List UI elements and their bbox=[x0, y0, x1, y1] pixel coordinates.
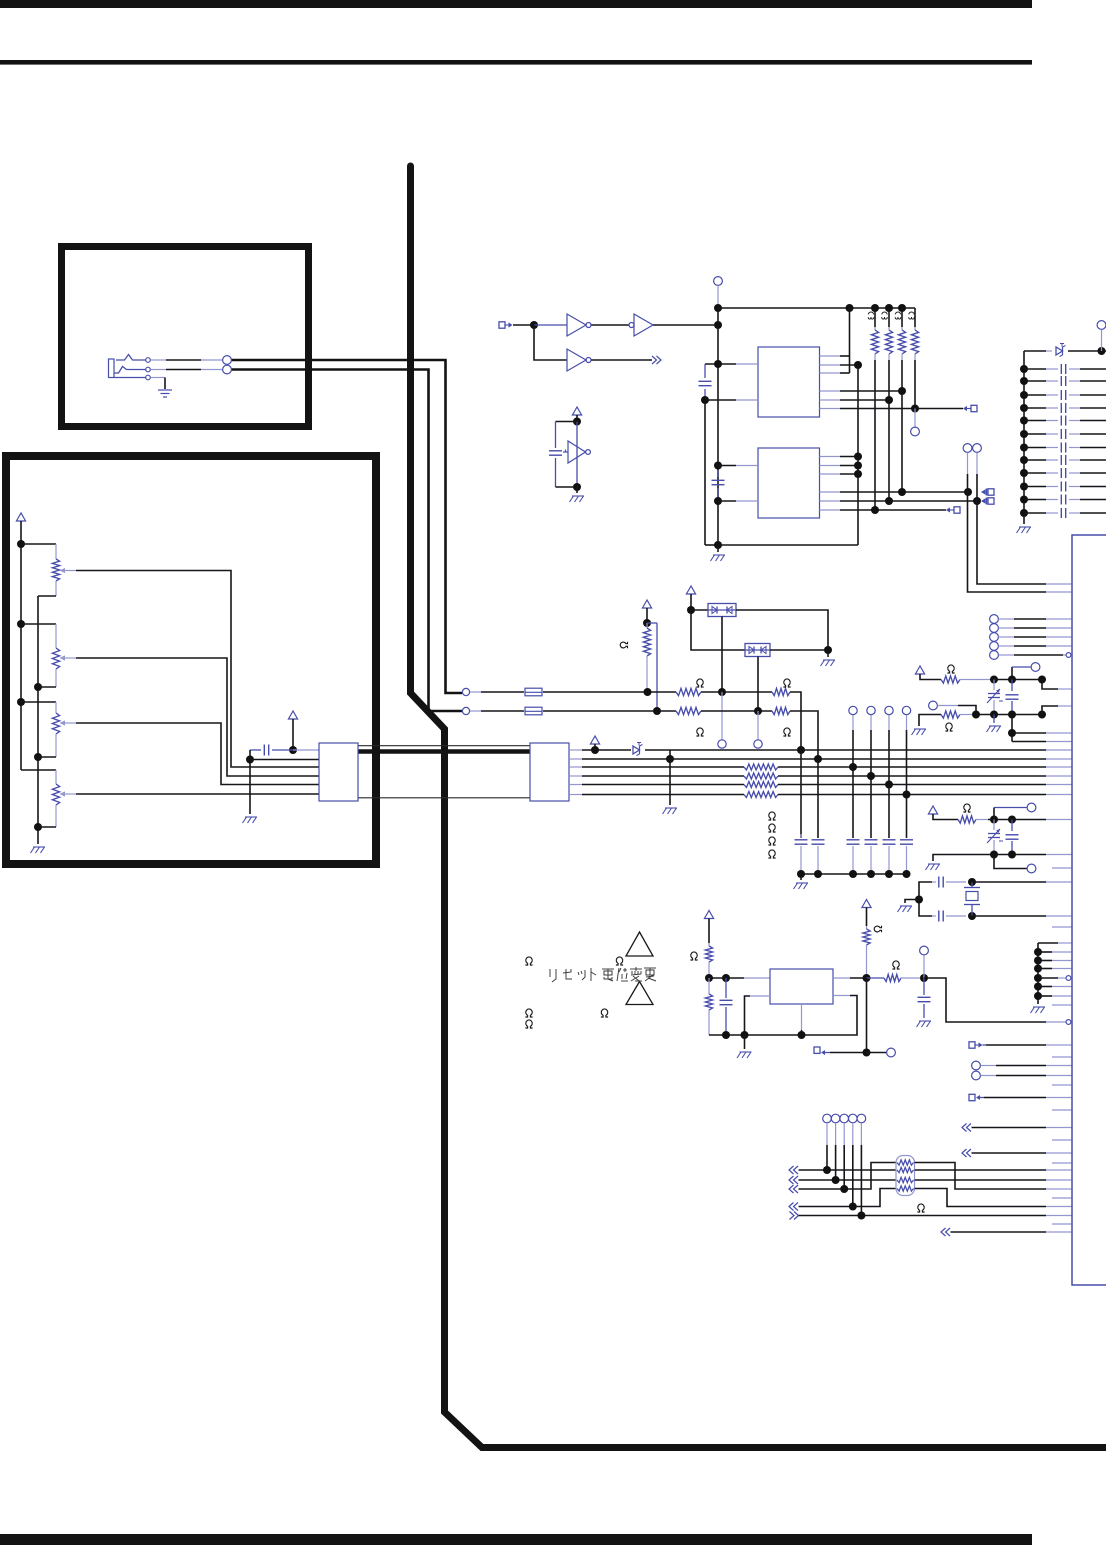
wire col4 bbox=[870, 715, 872, 838]
node bank 4 bbox=[1020, 404, 1028, 412]
wire row1045 bbox=[986, 1044, 1072, 1046]
wire wiper3 bbox=[76, 723, 319, 785]
wire U3 out3 bbox=[820, 372, 850, 374]
wire sig2 a bbox=[470, 710, 524, 712]
resistor R21 bbox=[705, 978, 712, 1035]
wire R5 col bbox=[901, 360, 903, 492]
node connector pin1 bbox=[289, 746, 297, 754]
capacitor C14 bbox=[932, 877, 966, 888]
wire U3 pin in1 bbox=[705, 363, 758, 365]
jack J1 sleeve body bbox=[109, 359, 115, 378]
pin circle B bbox=[973, 444, 982, 453]
node xtal top bbox=[968, 878, 976, 886]
node R7 top bbox=[643, 619, 651, 627]
ground diodes bbox=[821, 650, 836, 666]
wire t2 link bbox=[938, 706, 977, 715]
label ohm e bbox=[601, 1009, 608, 1017]
node connector pin2 bbox=[246, 756, 254, 764]
wire rp out3 bbox=[915, 1179, 1073, 1181]
chevron in 1206 bbox=[789, 1203, 798, 1211]
capacitor C10 bbox=[250, 745, 293, 756]
pin circle t3 bbox=[1027, 803, 1036, 812]
node t2e bbox=[1008, 729, 1016, 737]
resistor R9 bbox=[676, 688, 701, 695]
wire sig2 to col bbox=[790, 711, 818, 759]
resistor R13 bbox=[744, 764, 778, 770]
resistor R6 bbox=[911, 308, 918, 360]
wire to pot2 bbox=[21, 624, 56, 648]
terminal circle col6 bbox=[902, 706, 910, 714]
pin stub 1057 bbox=[1052, 1056, 1072, 1058]
jack harness wire lower bbox=[231, 370, 462, 712]
pin circle t4 bbox=[1027, 864, 1036, 873]
label ohm R10 bbox=[696, 728, 703, 736]
chevron in 1189 bbox=[789, 1185, 798, 1193]
wire row714 bbox=[960, 714, 1042, 716]
capacitor CB4 bbox=[1024, 403, 1106, 413]
pin stub 927 bbox=[1052, 926, 1072, 928]
wire pot2 bottom bbox=[38, 686, 56, 688]
wire wiper2 bbox=[76, 658, 319, 776]
ground t2 mid bbox=[987, 715, 1002, 733]
wire tp3 to conn bbox=[999, 636, 1073, 638]
node r3 510 bbox=[871, 506, 879, 514]
wire D1 tap bbox=[721, 617, 723, 693]
ground connector bbox=[243, 817, 258, 823]
terminal circle sig1 bbox=[462, 688, 469, 695]
ground zener bbox=[663, 808, 678, 814]
wire tp5 to conn bbox=[999, 653, 1073, 658]
wire row767 a bbox=[569, 766, 744, 768]
crystal X1 bbox=[964, 882, 980, 916]
pin circle D1 tap bbox=[718, 692, 726, 748]
wire reset sense bbox=[866, 978, 868, 1053]
resistor R5 bbox=[898, 308, 905, 360]
node rail R2 bbox=[846, 304, 854, 312]
wire sig1 c bbox=[701, 691, 772, 693]
control panel enclosure box bbox=[6, 456, 376, 864]
wire det vertical bbox=[576, 422, 578, 488]
node t1b bbox=[1008, 676, 1016, 684]
node reset b bbox=[722, 974, 730, 982]
node grp6 3 bbox=[1034, 965, 1042, 973]
port reset in bbox=[814, 1047, 830, 1055]
bus right vertical bbox=[718, 365, 858, 545]
pin stub 1110 bbox=[1052, 1109, 1072, 1111]
node pot1 top bbox=[17, 540, 25, 548]
terminal circle col5 bbox=[885, 706, 893, 714]
caution triangle 2 bbox=[626, 982, 653, 1005]
node u4out1 bbox=[854, 453, 862, 461]
node r4 501 bbox=[885, 497, 893, 505]
node u4out2 bbox=[854, 462, 862, 470]
resistor R22 bbox=[863, 926, 870, 978]
node cb3 bbox=[849, 870, 857, 878]
wire to pot3 bbox=[21, 702, 56, 713]
output chevron U2C bbox=[652, 356, 661, 364]
top title bar bbox=[0, 0, 1032, 8]
node grp6 6 bbox=[1034, 992, 1042, 1000]
ground C17 bbox=[917, 1021, 932, 1027]
capacitor CB3 bbox=[1024, 390, 1106, 400]
wire row1189 bbox=[799, 1163, 897, 1190]
main thick harness wire bbox=[411, 166, 1106, 1448]
chevron in 1232 bbox=[941, 1228, 950, 1236]
wire U3 out1 bbox=[820, 355, 850, 357]
power triangle diodes bbox=[686, 586, 695, 610]
node t2d bbox=[1038, 711, 1046, 719]
node grp6 5 bbox=[1034, 983, 1042, 991]
wire row1097 bbox=[984, 1097, 1072, 1099]
resistor R14 bbox=[744, 773, 778, 779]
wire D2 tap bbox=[757, 657, 759, 712]
caution triangle 1 bbox=[626, 932, 653, 956]
wire t3 circle link bbox=[994, 808, 1027, 820]
pin circle top bbox=[714, 277, 723, 286]
wire row767 b bbox=[778, 766, 1072, 768]
label ohm a bbox=[525, 957, 532, 965]
wire port to node bbox=[513, 324, 534, 326]
supply bus wire bbox=[21, 544, 56, 770]
wire sig1 to col bbox=[790, 692, 801, 750]
capacitor C8 bbox=[865, 840, 878, 874]
wire rail top row bbox=[1024, 350, 1052, 352]
node bank 1 bbox=[1020, 365, 1028, 373]
label ohm b bbox=[616, 957, 623, 965]
diode pair D2 bbox=[745, 644, 770, 657]
label ohm R13 bbox=[768, 812, 775, 820]
capacitor CB2 bbox=[1024, 376, 1106, 386]
wire g5 c5 bbox=[860, 1123, 862, 1216]
node bank 3 bbox=[1020, 391, 1028, 399]
node col4 bbox=[867, 772, 875, 780]
node r5 492 bbox=[898, 488, 906, 496]
node t2a bbox=[972, 711, 980, 719]
wire col3 bbox=[852, 715, 854, 838]
node t3d bbox=[1008, 851, 1016, 859]
wire c1 ground col bbox=[705, 400, 718, 545]
node grp6 4 bbox=[1034, 974, 1042, 982]
node u3pin1 bbox=[714, 360, 722, 368]
wire g5 c3 bbox=[843, 1123, 845, 1189]
wire U2A to U2B bbox=[592, 324, 630, 326]
capacitor CB1 bbox=[1024, 364, 1106, 374]
resistor R12 bbox=[772, 707, 790, 714]
capacitor C7 bbox=[847, 840, 860, 874]
label ohm R7 bbox=[620, 642, 627, 649]
node t1c bbox=[1038, 676, 1046, 684]
port data1 bbox=[981, 489, 994, 496]
wire row854 bbox=[933, 855, 1072, 862]
bus vertical main bbox=[717, 308, 719, 545]
chevron in 1180 bbox=[789, 1176, 798, 1184]
node gnd rail joint bbox=[714, 541, 722, 549]
wire U6 pin2 bbox=[745, 996, 771, 1035]
wire col2 lower bbox=[817, 759, 819, 838]
capacitor C13 bbox=[1006, 820, 1019, 855]
capacitor CB8 bbox=[1024, 455, 1106, 465]
wire xtal row882 bbox=[972, 881, 1072, 883]
node bank 8 bbox=[1020, 456, 1028, 464]
wire R6 col bbox=[914, 360, 916, 409]
label ohm R16 bbox=[768, 850, 775, 858]
jack J1 ring contact bbox=[114, 367, 146, 374]
cap bank left rail bbox=[1023, 351, 1025, 513]
wire R2 col bbox=[849, 308, 851, 373]
wire U4 pin in1 bbox=[718, 465, 758, 467]
node grp6 1 bbox=[1034, 948, 1042, 956]
wire t2 down1 bbox=[1011, 715, 1013, 742]
pin circle A bbox=[963, 444, 972, 453]
ground t3 bbox=[926, 864, 941, 870]
port data3 bbox=[946, 507, 960, 513]
wire U6 right pin2 bbox=[709, 996, 857, 1036]
node reset rail1 bbox=[722, 1031, 730, 1039]
terminal circle col4 bbox=[867, 706, 875, 714]
wire t2 step bbox=[1042, 706, 1072, 715]
resistor R15 bbox=[744, 782, 778, 788]
pin circle 1066 bbox=[972, 1061, 981, 1070]
label ohm R20 bbox=[690, 952, 697, 960]
pin circle t1 bbox=[1031, 663, 1040, 672]
label C3 a bbox=[868, 312, 874, 319]
node r5 391 bbox=[898, 387, 906, 395]
wire t1 circle link bbox=[1012, 667, 1031, 680]
power triangle row750 bbox=[590, 736, 599, 750]
node rail R5 bbox=[898, 304, 906, 312]
wire D1 out bbox=[736, 610, 828, 650]
capacitor C5 bbox=[795, 834, 808, 874]
node t3b bbox=[1008, 816, 1016, 824]
pin stub 868 bbox=[1052, 867, 1072, 869]
wire cap to ground bbox=[249, 750, 251, 814]
chevron in 1153 bbox=[962, 1149, 971, 1157]
wire col6 bbox=[906, 715, 908, 838]
wire row1180 bbox=[799, 1179, 897, 1181]
diode pair D1 bbox=[708, 604, 736, 617]
connector CN1 left box bbox=[319, 743, 358, 801]
label ohm R14 bbox=[768, 824, 775, 832]
wire branch lower inverter bbox=[534, 325, 567, 360]
label ohm R15 bbox=[768, 837, 775, 845]
wire tp2 to conn bbox=[999, 627, 1073, 629]
resistor R20 bbox=[705, 943, 712, 978]
pin stub 1224 bbox=[1052, 1223, 1072, 1225]
resistor R11 bbox=[676, 707, 701, 714]
label ohm R22 bbox=[874, 926, 881, 933]
wire row1170 bbox=[799, 1169, 897, 1171]
pin stub 1085 bbox=[1052, 1084, 1072, 1086]
wire col1 lower bbox=[800, 750, 802, 838]
pin circle D2 tap bbox=[754, 711, 762, 748]
pin circle top right bbox=[1097, 321, 1106, 351]
port out 1045 bbox=[969, 1042, 986, 1048]
wire D2 out bbox=[770, 649, 828, 651]
ground detector bbox=[570, 487, 585, 502]
label ohm R23 bbox=[892, 961, 899, 969]
wire sig2 c bbox=[701, 710, 772, 712]
inverter U2B bbox=[629, 314, 653, 336]
node circ2 501 bbox=[973, 497, 981, 505]
wire grp6 3 bbox=[1038, 968, 1072, 970]
node pot3 bottom bbox=[34, 753, 42, 761]
capacitor CB6 bbox=[1024, 429, 1106, 439]
wire grp6 2 bbox=[1038, 960, 1072, 962]
jack J1 tip pin bbox=[146, 358, 151, 363]
ground reset bbox=[737, 1035, 752, 1058]
node c1 bot bbox=[701, 396, 709, 404]
terminal circle col3 bbox=[849, 706, 857, 714]
power triangle detector bbox=[572, 407, 581, 422]
label C3 b bbox=[882, 312, 888, 319]
node circ1 492 bbox=[964, 488, 972, 496]
power triangle reset bbox=[704, 911, 713, 944]
wire U2B out bbox=[653, 324, 714, 326]
wire U4 out5 bbox=[820, 500, 978, 502]
chevron in 1170 bbox=[789, 1166, 798, 1174]
wire col5 bbox=[888, 715, 890, 838]
wire reset pin1 bbox=[709, 977, 770, 979]
wire tip to connector bbox=[151, 359, 223, 361]
wire U6 out bbox=[833, 977, 867, 979]
wire R8 branch bbox=[647, 623, 657, 711]
IC U4 lower bbox=[758, 448, 820, 518]
ground main bus bbox=[711, 545, 726, 561]
label ohm RP bbox=[917, 1204, 924, 1212]
wire row819 bbox=[976, 819, 1072, 821]
node t3a bbox=[990, 816, 998, 824]
detector U5 bbox=[563, 441, 590, 463]
pot return bus bbox=[37, 596, 39, 844]
wire pot4 bottom bbox=[38, 826, 56, 828]
wire to pot4 bbox=[55, 770, 57, 784]
wire row1128 bbox=[972, 1127, 1073, 1129]
node reset e bbox=[863, 1049, 871, 1057]
node reset rail3 bbox=[798, 1031, 806, 1039]
wire row759 bbox=[569, 758, 1072, 760]
wire U2C out bbox=[592, 359, 653, 361]
power triangle T2 bbox=[928, 806, 958, 820]
wire top row b bbox=[1068, 350, 1106, 352]
node u4pin1 bbox=[714, 462, 722, 470]
cap bank bottom rail bbox=[801, 873, 907, 875]
wire row1232 bbox=[951, 1231, 1073, 1233]
wire row750 b bbox=[645, 749, 1072, 751]
capacitor C16 bbox=[720, 978, 733, 1035]
input port IN1 bbox=[499, 322, 513, 328]
wire reset to conn bbox=[924, 978, 1071, 1024]
wire U3 pin in2 bbox=[705, 399, 758, 401]
label ohm R9 bbox=[696, 679, 703, 687]
wire U4 out1 bbox=[820, 456, 859, 458]
wire U4 out2 bbox=[820, 465, 859, 467]
node inverter input bbox=[530, 321, 538, 329]
wire U4 out3 bbox=[820, 473, 859, 475]
potentiometer VR4 bbox=[52, 784, 76, 827]
node b1215 bbox=[857, 1212, 865, 1220]
wire circleB down bbox=[976, 453, 978, 502]
wire grp6 1 bbox=[1038, 951, 1072, 953]
jack output terminal upper bbox=[223, 356, 232, 365]
wire grp6 4 bbox=[1038, 976, 1071, 981]
pin stub 1163 bbox=[1052, 1162, 1072, 1164]
pin circle reset2 bbox=[887, 1048, 896, 1057]
node rail R4 bbox=[885, 304, 893, 312]
node grp6 2 bbox=[1034, 957, 1042, 965]
wire grp6 top bbox=[1038, 943, 1072, 1001]
node sig1 d1 bbox=[718, 688, 726, 696]
node b1189 bbox=[840, 1185, 848, 1193]
wire R4 col bbox=[888, 360, 890, 501]
wire row1066 bbox=[981, 1065, 1073, 1067]
potentiometer VR1 bbox=[52, 559, 76, 596]
node row750 bbox=[591, 746, 599, 754]
node t2b bbox=[990, 711, 998, 719]
ground grp6 bbox=[1031, 1001, 1046, 1013]
wire U3 out2 bbox=[820, 364, 859, 366]
node bank 6 bbox=[1020, 430, 1028, 438]
power triangle left box bbox=[16, 513, 25, 544]
wire row714 gnd riser bbox=[919, 715, 941, 727]
node sig2 pullup bbox=[653, 707, 661, 715]
panel harness thick wire bbox=[358, 749, 530, 754]
wire g5 c1 bbox=[826, 1123, 828, 1170]
power triangle R7 bbox=[642, 600, 651, 623]
wire connector pin1 stub bbox=[293, 749, 319, 751]
zener D3 bbox=[633, 743, 643, 756]
capacitor CB5 bbox=[1024, 416, 1106, 426]
node cb1 bbox=[797, 870, 805, 878]
wire row776 a bbox=[569, 775, 744, 777]
wire to reset circle bbox=[867, 1052, 887, 1054]
node bank 10 bbox=[1020, 483, 1028, 491]
resistor R4 bbox=[885, 308, 892, 360]
node pot2 bottom bbox=[34, 683, 42, 691]
wire U3 out5 bbox=[820, 399, 890, 401]
node rail R3 bbox=[871, 304, 879, 312]
node sig2 d2 bbox=[754, 707, 762, 715]
wire port to reset node bbox=[830, 1052, 867, 1054]
label ohm R17 bbox=[947, 665, 954, 673]
power triangle T1 bbox=[915, 666, 941, 680]
capacitor C2 bbox=[712, 470, 725, 497]
node pot4 bottom bbox=[34, 823, 42, 831]
port mute in bbox=[963, 405, 977, 411]
wire row784 b bbox=[778, 784, 1072, 786]
wire U4 out6 bbox=[820, 509, 947, 511]
node col5 bbox=[885, 781, 893, 789]
chevron out 1215 bbox=[790, 1212, 799, 1220]
wire U6 bottom pin bbox=[801, 1004, 803, 1035]
resistor R3 bbox=[871, 308, 878, 360]
pin stub 1140 bbox=[1052, 1139, 1072, 1141]
capacitor C12 bbox=[1006, 680, 1019, 715]
capacitor C4 bbox=[549, 422, 577, 488]
resistor R10 bbox=[772, 688, 790, 695]
ferrite bead FB2 bbox=[525, 707, 542, 715]
wire sig1 b bbox=[543, 691, 676, 693]
ground cap bank rail bbox=[1017, 513, 1032, 533]
ground xtal bbox=[898, 900, 920, 913]
capacitor CB9 bbox=[1024, 468, 1106, 478]
node b1206 bbox=[849, 1203, 857, 1211]
wire to inverter U2A bbox=[534, 324, 567, 326]
node col2 bbox=[814, 755, 822, 763]
port in 1097 bbox=[969, 1094, 984, 1100]
node det top bbox=[573, 418, 581, 426]
node u4pin2 bbox=[714, 497, 722, 505]
capacitor C6 bbox=[812, 840, 825, 874]
